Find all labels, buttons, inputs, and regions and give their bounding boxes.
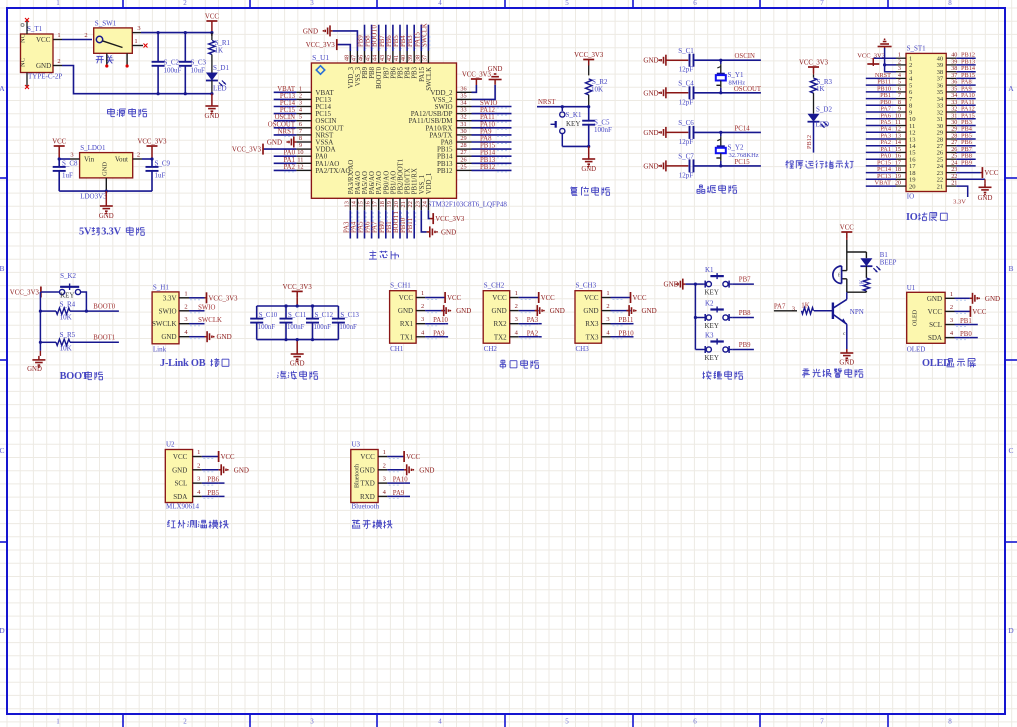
svg-text:PB3: PB3: [412, 66, 419, 78]
svg-text:PA5: PA5: [358, 221, 365, 233]
svg-text:3: 3: [299, 100, 302, 107]
svg-text:TX1: TX1: [400, 333, 413, 341]
svg-text:PB5: PB5: [207, 490, 219, 497]
svg-text:U3: U3: [352, 441, 361, 449]
svg-text:PA3: PA3: [343, 221, 350, 233]
svg-text:CH2: CH2: [484, 345, 498, 353]
svg-text:U2: U2: [166, 441, 175, 449]
svg-text:PB4: PB4: [405, 66, 412, 78]
svg-text:VCC_3V3: VCC_3V3: [574, 52, 604, 59]
svg-text:VCC_3V3: VCC_3V3: [232, 147, 262, 154]
svg-text:PA6/AO: PA6/AO: [369, 171, 376, 194]
svg-text:GND: GND: [643, 57, 658, 65]
svg-text:1: 1: [56, 0, 60, 7]
svg-text:B: B: [1008, 264, 1013, 273]
svg-text:K3: K3: [705, 332, 714, 340]
svg-text:PA15: PA15: [414, 32, 421, 47]
svg-text:1K: 1K: [860, 279, 866, 287]
svg-text:GND: GND: [643, 89, 658, 97]
svg-text:1: 1: [383, 449, 386, 456]
svg-text:VCC_3V3: VCC_3V3: [857, 53, 885, 60]
svg-text:VCC: VCC: [492, 294, 507, 302]
svg-text:21: 21: [400, 201, 407, 207]
svg-text:PB8: PB8: [365, 35, 372, 47]
svg-text:VCC_3V3: VCC_3V3: [283, 284, 313, 291]
svg-text:12pF: 12pF: [679, 138, 694, 146]
svg-text:RXD: RXD: [360, 493, 375, 501]
svg-text:VCC: VCC: [406, 454, 420, 461]
svg-text:8: 8: [948, 718, 952, 726]
svg-text:OSCIN: OSCIN: [735, 53, 755, 60]
svg-text:20: 20: [909, 183, 916, 190]
svg-text:S_R4: S_R4: [60, 301, 76, 309]
svg-text:VCC: VCC: [541, 295, 555, 302]
svg-text:4: 4: [438, 718, 442, 726]
svg-text:S_Y2: S_Y2: [728, 143, 744, 151]
svg-text:PB3: PB3: [407, 35, 414, 47]
svg-text:4: 4: [438, 0, 442, 7]
svg-text:VCC: VCC: [928, 308, 943, 316]
svg-text:S_C1: S_C1: [678, 47, 694, 55]
svg-text:f: f: [838, 272, 840, 279]
svg-text:RX1: RX1: [400, 320, 414, 328]
svg-text:1uF: 1uF: [155, 172, 166, 180]
svg-text:PC13: PC13: [280, 93, 296, 100]
svg-text:2: 2: [57, 58, 60, 65]
svg-text:PA1: PA1: [284, 157, 295, 164]
svg-text:PB10: PB10: [400, 217, 407, 233]
svg-text:IO: IO: [907, 193, 914, 201]
svg-text:PC14: PC14: [735, 125, 751, 132]
svg-text:VCC: VCC: [447, 295, 461, 302]
svg-text:32: 32: [460, 114, 466, 121]
svg-text:VCC: VCC: [972, 309, 986, 316]
svg-text:S_CH1: S_CH1: [390, 282, 411, 290]
svg-text:7: 7: [820, 718, 824, 726]
svg-text:VCC: VCC: [221, 454, 235, 461]
svg-text:VCC: VCC: [840, 225, 854, 232]
svg-text:A: A: [0, 84, 5, 93]
svg-text:PB14: PB14: [480, 150, 496, 157]
svg-text:BOOT0: BOOT0: [372, 24, 379, 47]
svg-text:2: 2: [421, 303, 424, 310]
svg-text:1: 1: [184, 290, 187, 297]
svg-text:VCC: VCC: [173, 453, 188, 461]
svg-text:100nF: 100nF: [258, 324, 276, 331]
svg-text:SWIO: SWIO: [480, 100, 497, 107]
svg-text:PB8: PB8: [739, 310, 751, 317]
svg-text:PB9: PB9: [358, 35, 365, 47]
svg-text:22: 22: [407, 201, 414, 207]
svg-text:13: 13: [343, 201, 350, 207]
svg-text:PB1/AO: PB1/AO: [390, 171, 397, 195]
svg-text:GND: GND: [217, 333, 232, 341]
svg-text:45: 45: [365, 55, 372, 61]
svg-text:KEY: KEY: [566, 120, 580, 128]
svg-text:TX2: TX2: [494, 333, 507, 341]
svg-text:10K: 10K: [591, 86, 603, 94]
svg-text:3.3V: 3.3V: [101, 227, 121, 238]
svg-text:GND: GND: [398, 307, 413, 315]
svg-text:K2: K2: [705, 300, 714, 308]
svg-text:1: 1: [421, 290, 424, 297]
svg-text:SWIO: SWIO: [198, 304, 215, 311]
svg-text:26: 26: [460, 156, 466, 163]
svg-text:S_CH2: S_CH2: [484, 282, 505, 290]
svg-text:PB5: PB5: [393, 35, 400, 47]
svg-text:GND: GND: [27, 366, 42, 373]
svg-text:VCC: VCC: [984, 170, 998, 177]
svg-text:STM32F103C8T6_LQFP48: STM32F103C8T6_LQFP48: [428, 201, 508, 209]
svg-text:PA9: PA9: [480, 128, 492, 135]
svg-text:48: 48: [343, 55, 350, 61]
svg-text:VCC: VCC: [360, 453, 375, 461]
svg-text:PA10: PA10: [480, 121, 495, 128]
svg-text:39: 39: [407, 55, 414, 61]
svg-text:1: 1: [57, 32, 60, 39]
svg-text:BOOT1: BOOT1: [93, 335, 115, 342]
svg-text:1K: 1K: [816, 85, 825, 93]
svg-text:BOOT1: BOOT1: [393, 211, 400, 233]
svg-text:2: 2: [383, 462, 386, 469]
svg-text:TX3: TX3: [586, 333, 599, 341]
svg-text:GND: GND: [550, 307, 565, 315]
svg-text:10uF: 10uF: [191, 67, 206, 75]
svg-text:GND: GND: [419, 466, 434, 474]
svg-text:PB13: PB13: [480, 157, 496, 164]
svg-text:PA15: PA15: [419, 66, 426, 81]
svg-text:PB9: PB9: [362, 66, 369, 78]
svg-text:3: 3: [137, 25, 140, 32]
svg-text:CH1: CH1: [390, 345, 404, 353]
svg-text:PB6: PB6: [207, 477, 219, 484]
svg-text:100uF: 100uF: [164, 67, 182, 75]
svg-text:36: 36: [460, 85, 466, 92]
svg-text:PB8: PB8: [369, 66, 376, 78]
svg-text:2: 2: [137, 152, 140, 159]
svg-text:Vin: Vin: [84, 156, 95, 164]
svg-text:OSCOUT: OSCOUT: [268, 121, 296, 128]
svg-text:3: 3: [184, 316, 187, 323]
svg-text:PB0: PB0: [379, 221, 386, 233]
svg-text:3: 3: [383, 476, 386, 483]
svg-text:S_K1: S_K1: [566, 111, 582, 119]
svg-text:PB1: PB1: [386, 221, 393, 233]
svg-text:PB9: PB9: [961, 159, 972, 166]
svg-text:KEY: KEY: [705, 322, 719, 330]
svg-text:PA9: PA9: [393, 490, 405, 497]
svg-text:3: 3: [70, 152, 73, 159]
svg-text:GND: GND: [643, 129, 658, 137]
svg-text:GND: GND: [456, 307, 471, 315]
svg-text:S_T1: S_T1: [27, 25, 43, 33]
svg-text:8: 8: [948, 0, 952, 7]
svg-text:PA8: PA8: [480, 136, 492, 143]
svg-text:8: 8: [299, 135, 302, 142]
svg-text:S_ST1: S_ST1: [907, 45, 927, 53]
svg-text:SCL: SCL: [174, 480, 187, 488]
svg-text:100nF: 100nF: [594, 126, 612, 134]
svg-text:PA3: PA3: [527, 317, 539, 324]
svg-text:PB12: PB12: [806, 135, 813, 149]
svg-text:GND: GND: [664, 281, 679, 289]
svg-text:SWIO: SWIO: [159, 307, 177, 315]
svg-text:3: 3: [197, 476, 200, 483]
svg-text:IO: IO: [906, 212, 918, 223]
svg-text:TYPE-C-2P: TYPE-C-2P: [28, 73, 62, 81]
svg-text:VCC: VCC: [399, 294, 414, 302]
svg-text:NRST: NRST: [538, 99, 556, 106]
svg-text:GND: GND: [642, 307, 657, 315]
svg-text:VCC: VCC: [36, 36, 51, 44]
svg-text:2: 2: [184, 303, 187, 310]
svg-text:1: 1: [299, 85, 302, 92]
svg-text:OLED: OLED: [907, 346, 926, 354]
svg-text:LDO3V3: LDO3V3: [80, 193, 107, 201]
svg-text:GND: GND: [99, 213, 114, 220]
svg-text:PA2: PA2: [527, 330, 539, 337]
svg-text:PB11: PB11: [407, 218, 414, 233]
svg-text:38: 38: [414, 55, 421, 61]
svg-text:25: 25: [460, 163, 466, 170]
svg-text:PA6: PA6: [365, 221, 372, 233]
svg-text:2: 2: [84, 32, 87, 39]
svg-text:PA3/RX/AO: PA3/RX/AO: [348, 160, 355, 195]
svg-text:OLED: OLED: [913, 309, 919, 326]
svg-text:30: 30: [460, 128, 466, 135]
svg-text:VBAT: VBAT: [875, 180, 892, 187]
svg-text:PA11: PA11: [480, 114, 495, 121]
svg-text:42: 42: [386, 55, 393, 61]
svg-text:5: 5: [565, 0, 569, 7]
svg-text:S_H1: S_H1: [153, 283, 169, 291]
svg-text:1uF: 1uF: [62, 172, 73, 180]
svg-text:VCC_3V3: VCC_3V3: [10, 290, 40, 297]
svg-text:S_SW1: S_SW1: [95, 20, 117, 28]
svg-text:GND: GND: [839, 360, 854, 367]
svg-text:6: 6: [693, 718, 697, 726]
svg-text:U1: U1: [907, 284, 916, 292]
svg-text:3: 3: [606, 316, 609, 323]
svg-text:GND: GND: [492, 307, 507, 315]
svg-text:BEEP: BEEP: [880, 260, 897, 267]
svg-text:S_C8: S_C8: [62, 160, 78, 168]
svg-text:PB12: PB12: [480, 164, 496, 171]
svg-text:1: 1: [56, 718, 60, 726]
svg-text:SDA: SDA: [928, 334, 942, 342]
svg-text:1K: 1K: [215, 47, 224, 55]
svg-text:20: 20: [393, 201, 400, 207]
svg-text:S_C12: S_C12: [315, 312, 334, 319]
svg-text:PB15: PB15: [480, 143, 496, 150]
svg-text:37: 37: [421, 55, 428, 61]
svg-text:18: 18: [379, 201, 386, 207]
svg-text:B: B: [0, 264, 5, 273]
svg-text:S_U1: S_U1: [312, 53, 329, 62]
svg-text:5: 5: [565, 718, 569, 726]
svg-text:28: 28: [460, 142, 466, 149]
svg-text:GND: GND: [102, 162, 109, 176]
svg-text:7: 7: [820, 0, 824, 7]
svg-text:B1: B1: [880, 252, 888, 259]
svg-text:OSCIN: OSCIN: [275, 114, 295, 121]
svg-text:TXD: TXD: [360, 480, 374, 488]
svg-text:VCC_3V3: VCC_3V3: [306, 42, 336, 49]
svg-text:SCL: SCL: [929, 321, 942, 329]
svg-text:LED: LED: [816, 121, 830, 129]
svg-text:SWCLK: SWCLK: [198, 317, 222, 324]
svg-text:3.3V: 3.3V: [163, 294, 177, 302]
svg-text:6: 6: [299, 121, 302, 128]
svg-text:43: 43: [379, 55, 386, 61]
svg-text:12pF: 12pF: [679, 171, 694, 179]
svg-text:41: 41: [393, 55, 400, 61]
svg-text:D: D: [1008, 626, 1014, 635]
svg-text:GND: GND: [161, 333, 176, 341]
svg-text:VCC_3V3: VCC_3V3: [137, 139, 167, 146]
svg-text:S_C4: S_C4: [678, 80, 694, 88]
svg-text:PB12: PB12: [437, 167, 453, 175]
svg-text:S_C13: S_C13: [340, 312, 359, 319]
svg-text:BOOT0: BOOT0: [93, 304, 116, 311]
svg-text:S_C6: S_C6: [678, 119, 694, 127]
svg-text:S_CH3: S_CH3: [576, 282, 597, 290]
svg-text:KEY: KEY: [705, 354, 719, 362]
svg-text:S_C3: S_C3: [191, 59, 207, 67]
svg-text:6: 6: [693, 0, 697, 7]
svg-text:PA5/AO: PA5/AO: [362, 171, 369, 194]
svg-text:BOOT0: BOOT0: [376, 66, 383, 89]
svg-text:C: C: [0, 446, 5, 455]
svg-text:5: 5: [299, 114, 302, 121]
svg-text:PB5: PB5: [398, 66, 405, 78]
svg-text:33: 33: [460, 107, 466, 114]
svg-text:GND: GND: [643, 162, 658, 170]
svg-text:GND: GND: [927, 295, 942, 303]
svg-text:3: 3: [310, 0, 314, 7]
svg-text:NPN: NPN: [850, 308, 864, 316]
svg-text:3: 3: [310, 718, 314, 726]
svg-text:2: 2: [515, 303, 518, 310]
svg-text:RX2: RX2: [493, 320, 507, 328]
svg-text:PB11/RX: PB11/RX: [412, 168, 419, 194]
svg-text:GND: GND: [36, 62, 51, 70]
svg-text:24: 24: [421, 200, 428, 207]
svg-text:NC: NC: [20, 58, 27, 67]
svg-text:PA7/AO: PA7/AO: [376, 171, 383, 194]
svg-text:2: 2: [606, 303, 609, 310]
svg-text:1: 1: [134, 38, 137, 45]
svg-text:100nF: 100nF: [314, 324, 332, 331]
svg-text:VCC: VCC: [52, 139, 66, 146]
svg-text:S_C10: S_C10: [259, 312, 278, 319]
svg-text:VSS_3: VSS_3: [355, 66, 362, 86]
svg-text:VDD_1: VDD_1: [426, 173, 433, 195]
svg-text:S_D2: S_D2: [816, 106, 832, 114]
svg-text:J-Link OB: J-Link OB: [160, 358, 206, 369]
svg-text:1: 1: [197, 449, 200, 456]
svg-text:GND: GND: [303, 27, 318, 35]
svg-text:GND: GND: [441, 228, 456, 236]
svg-text:GND: GND: [985, 295, 1000, 303]
svg-text:S_D1: S_D1: [213, 64, 229, 72]
svg-text:35: 35: [460, 92, 466, 99]
svg-text:10: 10: [297, 149, 303, 156]
svg-text:17: 17: [372, 201, 379, 207]
svg-text:KEY: KEY: [705, 289, 719, 297]
svg-text:VCC: VCC: [205, 14, 219, 21]
svg-text:7: 7: [299, 128, 302, 135]
svg-text:3: 3: [950, 317, 953, 324]
svg-text:VCC_3V3: VCC_3V3: [435, 216, 465, 223]
svg-text:PA4/AO: PA4/AO: [355, 171, 362, 194]
svg-text:PB6: PB6: [390, 66, 397, 78]
svg-text:PA0: PA0: [284, 150, 296, 157]
svg-text:GND: GND: [172, 466, 187, 474]
svg-text:2: 2: [197, 462, 200, 469]
svg-text:C: C: [1008, 446, 1013, 455]
svg-text:11: 11: [297, 156, 303, 163]
svg-text:NRST: NRST: [278, 128, 296, 135]
svg-text:21: 21: [937, 183, 944, 190]
svg-text:100nF: 100nF: [287, 324, 305, 331]
svg-text:K1: K1: [705, 266, 714, 274]
svg-text:5V: 5V: [79, 227, 92, 238]
svg-text:VSS_1: VSS_1: [419, 175, 426, 194]
svg-text:2: 2: [183, 0, 187, 7]
svg-text:PC14: PC14: [280, 100, 296, 107]
svg-text:3: 3: [515, 316, 518, 323]
svg-text:VBAT: VBAT: [277, 86, 296, 93]
svg-text:PC15: PC15: [735, 159, 751, 166]
svg-text:VCC: VCC: [633, 295, 647, 302]
svg-text:1: 1: [950, 291, 953, 298]
svg-text:S_Y1: S_Y1: [728, 71, 744, 79]
svg-text:2: 2: [299, 92, 302, 99]
svg-text:KEY: KEY: [60, 292, 74, 300]
svg-text:47: 47: [350, 55, 357, 61]
svg-text:12pF: 12pF: [679, 98, 694, 106]
svg-text:12: 12: [297, 163, 303, 170]
svg-text:GND: GND: [583, 307, 598, 315]
svg-text:46: 46: [358, 55, 365, 61]
svg-text:PB7: PB7: [379, 35, 386, 47]
svg-text:40: 40: [400, 55, 407, 61]
svg-text:PB2/BOOT1: PB2/BOOT1: [398, 159, 405, 195]
svg-text:SWCLK: SWCLK: [421, 23, 428, 47]
svg-text:100nF: 100nF: [339, 324, 357, 331]
svg-text:SWCLK: SWCLK: [152, 320, 177, 328]
svg-text:S_R5: S_R5: [60, 331, 76, 339]
svg-text:2: 2: [950, 304, 953, 311]
svg-text:PB7: PB7: [739, 277, 751, 284]
svg-text:1: 1: [606, 290, 609, 297]
svg-text:S_C7: S_C7: [678, 153, 694, 161]
svg-text:RX3: RX3: [585, 320, 599, 328]
svg-text:PA9: PA9: [433, 330, 445, 337]
svg-text:VCC_3V3: VCC_3V3: [209, 295, 239, 302]
svg-text:OLED: OLED: [922, 358, 950, 369]
svg-text:GND: GND: [581, 166, 596, 173]
svg-text:GND: GND: [267, 139, 282, 147]
svg-text:19: 19: [386, 201, 393, 207]
svg-text:D: D: [0, 626, 5, 635]
svg-text:44: 44: [372, 54, 379, 61]
svg-text:GND: GND: [978, 195, 993, 202]
svg-text:PA4: PA4: [350, 221, 357, 233]
svg-text:GND: GND: [290, 361, 305, 368]
svg-text:16: 16: [365, 201, 372, 207]
